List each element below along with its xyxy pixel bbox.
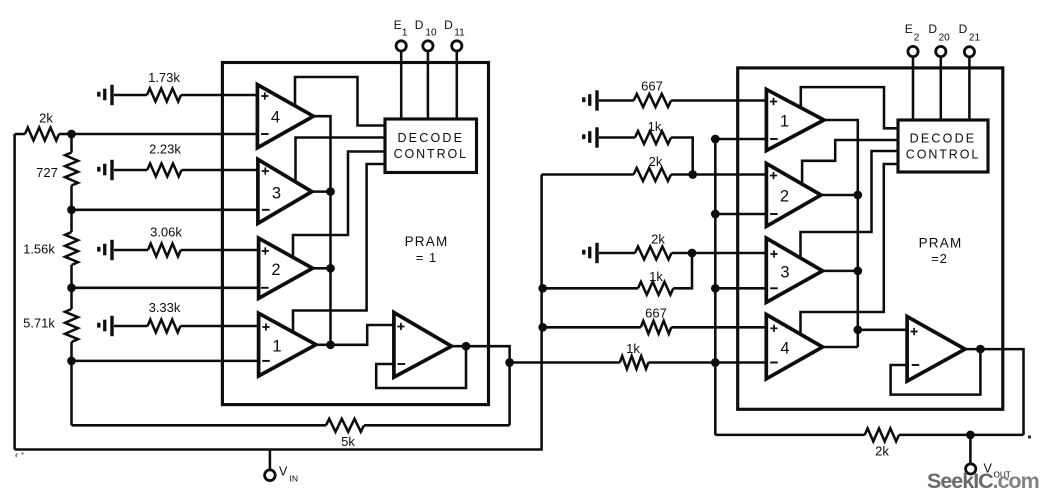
ink speck (1028, 436, 1031, 439)
A2 plus input (262, 247, 269, 254)
node B3 output junction (853, 267, 862, 276)
wire inverting bus (715, 139, 766, 435)
terminal E2 (908, 46, 918, 56)
wire B1 output (824, 120, 858, 347)
buffer2 plus input (911, 328, 918, 335)
op-amp B1 (766, 89, 824, 150)
wire tap to A3 inverting input (72, 209, 258, 212)
wire buffer output (452, 346, 510, 425)
wire tap to A2 inverting input (72, 287, 259, 290)
node bus junction 2 (711, 210, 720, 219)
svg-text:DECODE: DECODE (910, 132, 977, 146)
svg-text:1: 1 (780, 113, 789, 131)
node bus top (711, 135, 720, 144)
wire A1 output (316, 344, 331, 347)
resistor 2k input (15, 133, 25, 136)
ground ref A1 input (97, 323, 100, 328)
node ladder junction 3 (67, 283, 76, 292)
wire VIN stem (269, 450, 272, 470)
svg-text:3.33k: 3.33k (149, 300, 181, 315)
svg-text:4: 4 (780, 340, 789, 358)
wire bus to B2 inverting (715, 213, 766, 216)
svg-text:2k: 2k (651, 232, 665, 247)
wire decode to A2 (293, 152, 385, 259)
wire decode2 to B1 (801, 87, 898, 128)
svg-text:1.56k: 1.56k (23, 242, 55, 257)
svg-text:DECODE: DECODE (397, 131, 464, 145)
terminal D21 wire (968, 57, 971, 121)
svg-text:.com: .com (993, 469, 1039, 493)
node VIN riser tap row6 (538, 323, 547, 332)
svg-text:1: 1 (402, 28, 408, 39)
wire buffer2 output (965, 349, 1024, 435)
svg-text:2k: 2k (649, 154, 663, 169)
ground ref B1 input (582, 97, 585, 102)
svg-text:V: V (279, 465, 288, 479)
svg-text:667: 667 (645, 306, 667, 321)
ground ref B2 input (582, 134, 585, 139)
svg-text:1k: 1k (649, 269, 663, 284)
wire buffer feedback (376, 346, 466, 388)
svg-text:D: D (444, 18, 453, 32)
wire decode to A3 (296, 138, 386, 183)
terminal D20 (936, 46, 946, 56)
op-amp A1 (259, 313, 316, 376)
svg-text:IN: IN (290, 474, 299, 484)
svg-text:4: 4 (271, 109, 280, 127)
node ladder junction 4 (67, 357, 76, 366)
svg-text:5k: 5k (341, 434, 355, 449)
wire ladder segment 4 (70, 342, 73, 425)
wire bus to buffer 2 (858, 329, 907, 332)
node stage1 output (505, 358, 514, 367)
terminal D10 wire (427, 51, 430, 119)
svg-text:1: 1 (272, 338, 281, 356)
svg-text:1k: 1k (626, 341, 640, 356)
resistor 667 row6 (543, 326, 641, 329)
svg-text:2: 2 (780, 188, 789, 206)
node buffer2 output (976, 345, 985, 354)
op-amp B3 (766, 238, 822, 302)
wire tap to A4 inverting input (72, 133, 258, 136)
terminal E2 wire (912, 57, 915, 121)
svg-text:E: E (905, 22, 913, 36)
resistor 1k row5 (543, 287, 638, 290)
ink speck bottom left (16, 454, 18, 458)
svg-text:2k: 2k (39, 111, 53, 126)
terminal VIN (265, 470, 276, 481)
terminal D21 (964, 47, 974, 57)
svg-text:727: 727 (36, 165, 58, 180)
svg-text:CONTROL: CONTROL (394, 147, 468, 161)
wire decode to A1 (293, 164, 385, 332)
node A3 output junction (326, 187, 335, 196)
svg-text:10: 10 (425, 28, 437, 39)
terminal D11 (452, 41, 462, 51)
resistor 3.06k (114, 249, 148, 252)
resistor 5.71k ladder (65, 309, 78, 342)
ground ref B3 input (582, 250, 585, 255)
svg-text:1.73k: 1.73k (148, 70, 180, 85)
ground ref A3 input (97, 167, 100, 172)
wire decode2 to B3 (801, 151, 899, 258)
wire VIN left riser (13, 134, 16, 450)
svg-text:1k: 1k (648, 119, 662, 134)
terminal D20 wire (940, 57, 943, 121)
decode control block U1 (385, 119, 477, 173)
svg-text:3.06k: 3.06k (150, 225, 182, 240)
terminal E1 (396, 41, 406, 51)
node A1 output junction (326, 340, 335, 349)
wire B3 output (823, 270, 858, 273)
svg-text:=2: =2 (931, 251, 948, 266)
B1 plus input (770, 98, 777, 105)
node bus to buffer (853, 325, 862, 334)
wire bus to B3 inverting (715, 287, 766, 290)
node buffer output (462, 342, 471, 351)
B2 minus input (770, 213, 778, 215)
svg-text:21: 21 (969, 33, 981, 44)
resistor 2.23k (114, 169, 147, 172)
B3 minus input (770, 287, 778, 289)
A1 minus input (262, 360, 270, 362)
svg-text:3: 3 (780, 264, 789, 282)
node row4 junction (688, 249, 697, 258)
B4 minus input (770, 362, 778, 364)
svg-text:2.23k: 2.23k (149, 142, 181, 157)
resistor 3.33k (114, 325, 148, 328)
resistor 2k row4 (599, 252, 635, 255)
A2 minus input (261, 287, 269, 289)
op-amp B2 (766, 164, 821, 227)
node ladder top junction (67, 130, 76, 139)
svg-text:667: 667 (641, 79, 663, 94)
node B2 output junction (853, 191, 862, 200)
op-amp A3 (258, 159, 312, 223)
svg-text:PRAM: PRAM (405, 234, 449, 249)
svg-text:SeekIC: SeekIC (927, 469, 993, 493)
node bus junction 3 (711, 284, 720, 293)
node VIN riser tap row5 (538, 284, 547, 293)
op-amp A2 (259, 238, 313, 298)
A3 minus input (262, 209, 270, 211)
terminal D11 wire (456, 51, 459, 119)
wire buffer2 feedback (891, 349, 981, 395)
svg-text:20: 20 (939, 33, 951, 44)
svg-text:CONTROL: CONTROL (906, 148, 980, 162)
terminal D10 (423, 41, 433, 51)
wire bus to buffer input (331, 325, 394, 345)
A3 plus input (262, 167, 269, 174)
terminal E1 wire (400, 51, 403, 119)
ground ref A2 input (97, 247, 100, 252)
buffer2 minus input (912, 364, 920, 366)
svg-text:D: D (928, 22, 937, 36)
svg-text:2k: 2k (875, 444, 889, 459)
svg-text:D: D (959, 22, 968, 36)
svg-text:PRAM: PRAM (919, 236, 963, 251)
svg-text:D: D (415, 18, 424, 32)
wire VOUT stem (969, 435, 972, 464)
buffer minus input (398, 363, 406, 365)
op-amp A4 (257, 85, 313, 148)
node bus junction 4 (711, 358, 720, 367)
svg-text:= 1: = 1 (416, 250, 437, 265)
decode control block U2 (898, 120, 988, 172)
svg-text:2: 2 (914, 33, 920, 44)
wire decode to A4 (295, 77, 385, 126)
resistor 2k row3 (542, 173, 634, 176)
wire ladder segment 2 (70, 186, 73, 233)
wire B4 output (823, 346, 858, 349)
resistor 667 row1 (599, 99, 634, 102)
resistor 1k row2 (599, 136, 635, 139)
wire decode2 to B4 (801, 164, 899, 335)
wire decode2 to B2 (802, 140, 898, 184)
op-amp B4 (766, 315, 822, 379)
wire A3 output (312, 190, 331, 193)
wire ladder segment 3 (70, 265, 73, 309)
A4 plus input (261, 92, 268, 99)
op-amp U1 buffer (394, 313, 452, 378)
ground ref A4 input (97, 92, 100, 97)
PRAM U1 package outline (222, 63, 488, 405)
resistor 1k row7 (510, 361, 620, 364)
svg-text:3: 3 (272, 185, 281, 203)
resistor 5k feedback (72, 424, 327, 427)
wire B2 output (821, 194, 858, 197)
A4 minus input (261, 133, 269, 135)
node ladder junction 2 (67, 205, 76, 214)
B1 minus input (770, 138, 778, 140)
wire ladder segment 1 (70, 134, 73, 153)
wire tap to A1 inverting input (72, 360, 259, 363)
svg-text:2: 2 (271, 261, 280, 279)
resistor 2k feedback (715, 434, 864, 437)
wire VIN bottom rail (15, 175, 542, 450)
node row3 junction (688, 170, 697, 179)
resistor 1.73k (114, 94, 147, 97)
PRAM U2 package outline (738, 68, 1003, 409)
terminal VOUT (966, 464, 976, 474)
buffer plus input (397, 323, 404, 330)
B2 plus input (770, 172, 777, 179)
resistor 1.56k ladder (65, 232, 78, 265)
svg-text:11: 11 (454, 28, 465, 39)
svg-text:E: E (394, 18, 402, 32)
svg-text:5.71k: 5.71k (23, 316, 55, 331)
B3 plus input (770, 250, 777, 257)
B4 plus input (770, 325, 777, 332)
node VOUT junction (966, 431, 975, 440)
A1 plus input (262, 323, 269, 330)
wire A4 output (313, 116, 330, 345)
op-amp U2 buffer (907, 317, 965, 382)
wire A2 output (313, 267, 331, 270)
node A2 output junction (326, 264, 335, 273)
resistor 727 ladder (65, 153, 78, 186)
